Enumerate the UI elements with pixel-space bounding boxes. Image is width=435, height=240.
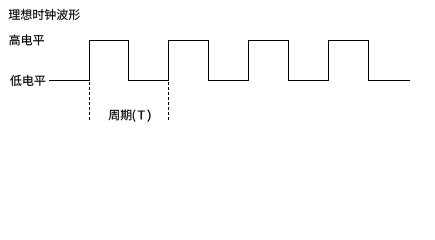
period marker: left dashed line xyxy=(89,82,91,120)
label: title text 理想时钟波形 (ideal clock waveform) xyxy=(9,9,80,20)
period marker: right dashed line xyxy=(168,82,170,120)
label: 高电平 (high level) xyxy=(9,34,44,45)
label: 周期(T) (period T) xyxy=(109,110,151,122)
wire: clock square-wave trace xyxy=(49,41,410,81)
label: 低电平 (low level) xyxy=(10,75,45,86)
